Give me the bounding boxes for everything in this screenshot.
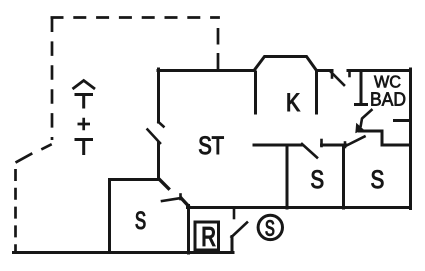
dashed terrace boundary top (51, 16, 220, 19)
symbol S circle (258, 215, 282, 239)
arrow door swing WC (361, 110, 372, 126)
wall kitchen left (254, 72, 257, 113)
wall S room left (108, 180, 111, 253)
wall step hall/S2 (360, 131, 411, 145)
dashed terrace boundary diagonal (16, 144, 52, 162)
wall ST left lower (157, 143, 160, 179)
wall S room top (110, 178, 160, 181)
wall kitchen right (315, 72, 318, 113)
door leaf entrance (232, 223, 248, 238)
wall porch left (187, 206, 190, 254)
door leaf S room (162, 198, 181, 201)
door leaf S bedroom 1 (302, 144, 317, 158)
dashed terrace boundary right vertical (217, 20, 220, 70)
wall separator S1/S2 (342, 145, 345, 208)
wall porch right (231, 237, 234, 253)
wall stub WC top left end (348, 72, 351, 76)
room label WC (374, 76, 400, 88)
room label ST (199, 136, 223, 154)
room label S right (372, 170, 384, 188)
door stub tick S room (179, 195, 182, 200)
wall below kitchen left segment (254, 144, 302, 147)
wall ST left upper (157, 69, 160, 122)
door stub entrance (233, 209, 236, 219)
wall separator hall/S1 (286, 145, 289, 208)
letter R (203, 227, 215, 246)
wall diagonal stub at porch corner (182, 199, 189, 206)
wall WC top (348, 69, 411, 72)
letter T lower (terrace) (75, 140, 94, 156)
door stub tick ST left (159, 122, 164, 127)
wall diagonal stub at ST corner (160, 180, 169, 189)
arrowhead (355, 123, 364, 133)
door stub tick (320, 140, 323, 146)
wall WC partial with T-end (356, 72, 367, 105)
wall BAD bottom stub (395, 119, 410, 122)
wall below kitchen mid segment (322, 144, 347, 147)
dashed terrace boundary left vertical (51, 18, 54, 141)
plus sign (78, 118, 91, 130)
door leaf S bedroom 2 (347, 137, 365, 146)
dashed terrace boundary lower left vertical (14, 169, 17, 252)
door leaf terrace (148, 130, 161, 144)
wall bedrooms bottom (188, 206, 411, 209)
wall ST top with kitchen bay (158, 57, 332, 71)
north chevron above T (73, 81, 96, 90)
letter T upper (terrace) (75, 95, 94, 109)
room label BAD (371, 92, 405, 105)
symbol R box (195, 222, 219, 250)
wall bottom exterior (14, 251, 234, 254)
wall right exterior (409, 69, 412, 209)
room label S middle (311, 170, 323, 188)
door stub back-door frame (331, 71, 334, 78)
letter S in circle (266, 220, 274, 235)
room label S bottom-left (136, 212, 145, 229)
door stub tick 2 (344, 143, 347, 148)
room label K (288, 93, 300, 111)
door leaf back door (330, 71, 344, 85)
